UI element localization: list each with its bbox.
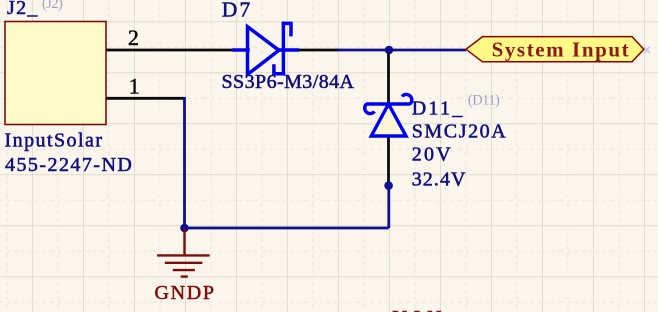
svg-text:InputSolar: InputSolar [5, 129, 103, 151]
svg-text:D7: D7 [222, 0, 251, 22]
svg-text:455-2247-ND: 455-2247-ND [5, 154, 132, 176]
svg-text:2: 2 [128, 25, 139, 50]
svg-text:System Input: System Input [492, 37, 629, 61]
svg-text:VIN: VIN [393, 307, 442, 312]
svg-text:1: 1 [129, 74, 140, 99]
svg-text:GNDP: GNDP [155, 282, 215, 304]
svg-text:(J2): (J2) [42, 0, 63, 12]
svg-text:(D11): (D11) [468, 93, 500, 109]
svg-text:D11_: D11_ [412, 98, 464, 120]
svg-text:SMCJ20A: SMCJ20A [412, 121, 507, 143]
svg-text:SS3P6-M3/84A: SS3P6-M3/84A [222, 71, 355, 93]
svg-text:32.4V: 32.4V [412, 169, 466, 191]
svg-text:20V: 20V [412, 144, 452, 166]
svg-text:J2_: J2_ [7, 0, 38, 19]
